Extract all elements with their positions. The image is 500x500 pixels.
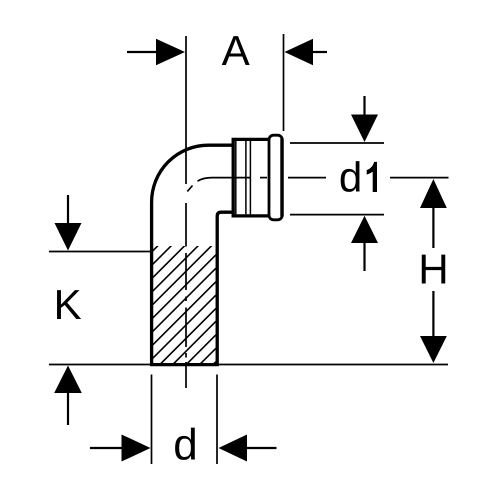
label d: [175, 428, 195, 460]
dimension H: top extension line (with centerline continuation): [390, 177, 449, 179]
elbow inner contour: [217, 212, 234, 366]
dimension d1: extension lines: [290, 142, 384, 144]
vertical centerline (also A left extension): [185, 36, 187, 184]
socket groove line 1: [235, 141, 237, 214]
label A: [222, 36, 250, 65]
hatch (insertion depth area): [39, 240, 338, 365]
label K: [57, 290, 81, 319]
socket groove line 3: [249, 141, 251, 214]
vertical centerline dashes below bend: [185, 203, 187, 388]
d right arrow: [219, 435, 248, 462]
dimension A top: left extension is centerline; right extension line: [283, 34, 285, 131]
d1 top arrow: [363, 96, 365, 116]
horizontal centerline segments: [198, 178, 327, 182]
K top arrow: [67, 195, 69, 224]
socket groove line 2: [245, 141, 247, 214]
pipe bottom edge: [150, 363, 219, 366]
d1 bottom arrow: [351, 216, 378, 243]
H top arrow: [420, 179, 447, 208]
socket end bead: [269, 135, 282, 220]
elbow body outer contour: [152, 145, 234, 366]
dimension K: top extension line: [49, 251, 152, 253]
centerline bend tick: [187, 186, 192, 192]
socket body: [233, 139, 270, 216]
label H: [422, 255, 445, 284]
label d1: [341, 161, 360, 192]
H bottom arrow: [432, 291, 434, 337]
A left arrow: [127, 51, 157, 53]
K bottom arrow: [54, 366, 82, 394]
d left arrow: [90, 447, 123, 449]
H bottom extension line / K bottom extension line: [49, 364, 448, 366]
bead right edge (thicker): [280, 139, 283, 217]
A right arrow: [285, 39, 314, 65]
dimension d: extension lines: [151, 375, 153, 465]
